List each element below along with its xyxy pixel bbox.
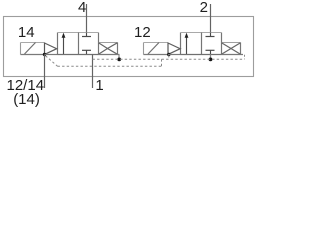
air spring return V1 — [99, 42, 118, 44]
wire dashed pilot channel B — [58, 65, 162, 67]
wire port 1 line — [92, 55, 94, 89]
wire pilot box bottom edge V2 — [144, 54, 169, 56]
wire dashed pilot link V2 — [168, 56, 170, 60]
valve V1 body — [57, 33, 59, 55]
wire port 4 line — [86, 4, 88, 33]
wire dashed return feed V2 — [244, 55, 246, 59]
wire dashed vertical link — [161, 59, 163, 66]
svg-text:12: 12 — [134, 24, 151, 41]
valve V2 blocked port bottom — [210, 51, 212, 55]
valve V1 blocked port bottom — [86, 51, 88, 55]
node pilot junction V1 — [43, 53, 46, 56]
solenoid coil V2 pilot box — [143, 43, 145, 55]
manifold outline box — [4, 17, 254, 77]
valve V2 body — [180, 33, 182, 55]
wire valve V1 bottom edge — [58, 54, 99, 56]
svg-text:14: 14 — [18, 24, 35, 41]
wire port 12/14 line — [44, 55, 46, 89]
air spring return V2 — [222, 42, 241, 44]
wire port 2 line — [210, 4, 212, 33]
wire pilot bottom edge V2 — [168, 54, 181, 56]
svg-text:2: 2 — [200, 0, 208, 16]
wire valve V2 bottom edge — [181, 54, 222, 56]
wire valve V1 bottom edge extension — [99, 54, 120, 56]
node return feed dot V1 — [117, 58, 121, 62]
valve V1 blocked port top — [86, 33, 88, 37]
valve V2 flow arrow — [186, 37, 188, 55]
node pilot junction V2 — [167, 53, 170, 56]
svg-text:1: 1 — [95, 77, 103, 94]
wire pilot bottom edge V1 — [45, 54, 58, 56]
wire return feed stub V1 — [118, 55, 120, 60]
pilot triangle V2 — [168, 43, 180, 54]
valve V1 flow arrow — [63, 37, 65, 55]
svg-text:(14): (14) — [13, 91, 40, 108]
valve V2 blocked port top — [210, 33, 212, 37]
wire dashed pilot diagonal from V1 — [46, 56, 58, 66]
svg-text:4: 4 — [78, 0, 86, 16]
pilot triangle V1 — [45, 43, 57, 54]
solenoid coil V1 pilot box — [20, 43, 22, 55]
wire supply stub V2 — [210, 55, 212, 60]
wire valve V2 bottom edge extension — [222, 54, 244, 56]
wire dashed channel A — [93, 58, 245, 60]
wire pilot box bottom edge V1 — [21, 54, 45, 56]
node supply dot V2 — [209, 58, 213, 62]
